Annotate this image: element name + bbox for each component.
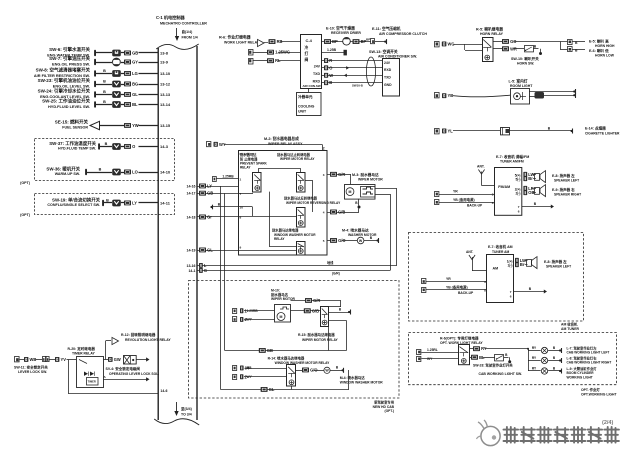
wire YR tuner xyxy=(435,189,495,196)
svg-text:B: B xyxy=(103,90,106,94)
svg-text:TIMER RELAY: TIMER RELAY xyxy=(72,351,96,355)
E-14 CIGARETTE LIGHTER xyxy=(501,125,621,135)
svg-text:RXD: RXD xyxy=(313,79,321,83)
wire relay out B xyxy=(329,308,351,315)
relay R-12 REVOLUTION LIGHT RELAY xyxy=(106,332,172,359)
E-11 AIR COMPRESSOR CLUTCH label xyxy=(372,26,427,36)
relay R-20 TIMER RELAY xyxy=(68,346,104,388)
svg-text:LO: LO xyxy=(132,170,138,175)
svg-text:WIPER MOTOR RELAY: WIPER MOTOR RELAY xyxy=(302,338,339,342)
room light return ticks xyxy=(573,89,575,98)
svg-text:HORN HIGH: HORN HIGH xyxy=(595,44,615,48)
svg-text:Gr: Gr xyxy=(207,215,212,220)
wire G/B cab xyxy=(291,308,321,313)
svg-text:M-2: 刮水器电器总成: M-2: 刮水器电器总成 xyxy=(264,136,299,141)
watermark rabbit logo xyxy=(477,420,501,446)
wiper relay assy box xyxy=(239,151,328,256)
wiper motor reversing relay xyxy=(284,195,341,227)
E-10 RECEIVER DRIER xyxy=(322,26,387,46)
lamp L-8 CAB WORKING LIGHT RIGHT xyxy=(528,355,611,364)
svg-text:CAB WORKING LIGHT RIGHT: CAB WORKING LIGHT RIGHT xyxy=(567,361,612,365)
svg-text:WIPER MOTOR: WIPER MOTOR xyxy=(358,178,383,182)
wire G/R to wiper motor xyxy=(323,172,351,185)
switch SW-10 HORN SW xyxy=(511,44,542,65)
svg-text:13-8: 13-8 xyxy=(160,51,169,56)
connector RB cab washer xyxy=(233,366,288,371)
svg-text:SW-10: 喇叭开关: SW-10: 喇叭开关 xyxy=(511,56,539,61)
svg-text:14-17: 14-17 xyxy=(187,191,196,195)
svg-text:GB: GB xyxy=(207,191,213,196)
connector WY wiper xyxy=(207,142,325,151)
svg-text:O: O xyxy=(329,65,332,70)
svg-text:14-3: 14-3 xyxy=(160,144,169,149)
svg-text:B: B xyxy=(103,79,106,83)
bus top break wave xyxy=(156,44,199,49)
svg-text:HORN RELAY: HORN RELAY xyxy=(480,32,504,36)
svg-text:14-19: 14-19 xyxy=(187,248,196,252)
switch SW-6 ENG WATER TEMP SW xyxy=(47,46,168,57)
svg-text:E-5: 喇叭 高: E-5: 喇叭 高 xyxy=(589,39,609,44)
antenna ANT xyxy=(477,164,495,185)
svg-text:4: 4 xyxy=(323,210,325,214)
svg-text:ANT.: ANT. xyxy=(466,250,473,254)
relay R-6 OPT box xyxy=(459,345,470,365)
svg-text:TUNER AM: TUNER AM xyxy=(492,250,510,254)
svg-text:9: 9 xyxy=(240,245,242,249)
speaker am wires xyxy=(507,258,528,268)
svg-text:14-16: 14-16 xyxy=(187,184,196,188)
svg-text:BP: BP xyxy=(332,39,338,44)
svg-text:7: 7 xyxy=(518,205,520,209)
svg-text:O: O xyxy=(132,144,135,149)
switch SW-28 CAB WORKING LIGHT SW xyxy=(473,353,522,376)
svg-text:R-6(OPT): 专用灯继电器: R-6(OPT): 专用灯继电器 xyxy=(440,335,479,340)
svg-text:YB (备用电源): YB (备用电源) xyxy=(453,197,475,202)
svg-text:AM: AM xyxy=(493,266,499,270)
svg-text:CAB WORKING LIGHT LEFT: CAB WORKING LIGHT LEFT xyxy=(567,351,610,355)
lamp L-9 BOOM CYLINDER WORKING LIGHT xyxy=(528,366,597,380)
svg-text:AM 收音机: AM 收音机 xyxy=(561,322,578,327)
connector 1.25RL xyxy=(417,348,459,354)
svg-text:ROOM LIGHT: ROOM LIGHT xyxy=(510,84,533,88)
wiper relay assy M-2 label xyxy=(264,136,303,146)
svg-text:E-7: 收音机 调幅/FM: E-7: 收音机 调幅/FM xyxy=(496,154,529,159)
wire GB pin 14-17 xyxy=(187,191,242,196)
ground wire L 13-16 xyxy=(187,260,398,268)
svg-text:GL: GL xyxy=(132,92,138,97)
svg-text:LY: LY xyxy=(132,201,137,206)
switch SW-7 ENG OIL PRESS SW xyxy=(49,55,169,66)
switch SW-37 HYD FLUID TEMP SW xyxy=(49,140,168,151)
branch wire LY down xyxy=(220,186,222,390)
solenoid SV-4 OPERATING LEVER LOCK SOL xyxy=(106,356,160,376)
assy internal wires xyxy=(238,168,313,250)
svg-text:新驾驶室专用: 新驾驶室专用 xyxy=(374,399,394,404)
svg-text:B: B xyxy=(329,80,332,85)
switch room light xyxy=(529,92,575,99)
svg-text:13-9: 13-9 xyxy=(160,60,169,65)
sensor SE-15 FUEL SENSOR xyxy=(55,119,171,130)
svg-text:13-13: 13-13 xyxy=(160,92,171,97)
svg-text:SW-8: 空气滤清器堵塞开关: SW-8: 空气滤清器堵塞开关 xyxy=(36,67,91,74)
wire R 24V xyxy=(322,58,382,63)
wire motor return lower xyxy=(376,194,391,271)
svg-text:L-8: 驾驶室作业灯右: L-8: 驾驶室作业灯右 xyxy=(567,355,598,360)
bus left vertical wire xyxy=(157,48,159,420)
svg-text:TUNER AM/FM: TUNER AM/FM xyxy=(500,160,524,164)
svg-text:E-9: 扬声器 右: E-9: 扬声器 右 xyxy=(552,187,575,192)
svg-text:G/R: G/R xyxy=(313,298,320,303)
svg-text:LY: LY xyxy=(207,184,212,189)
svg-text:E-14: 点烟器: E-14: 点烟器 xyxy=(585,125,606,130)
switch SW-25 HYD FLUID LEVEL SW xyxy=(42,98,171,109)
svg-text:14-1: 14-1 xyxy=(188,269,195,273)
svg-text:10: 10 xyxy=(240,206,244,210)
svg-text:(OPT): (OPT) xyxy=(20,181,31,185)
arrow TO 3/4 xyxy=(174,402,191,417)
svg-text:刮水器马达止转继电器: 刮水器马达止转继电器 xyxy=(277,152,311,157)
svg-text:BACK-UP: BACK-UP xyxy=(467,203,483,207)
svg-text:8: 8 xyxy=(240,216,242,220)
svg-text:1.25B: 1.25B xyxy=(327,48,337,52)
svg-text:SPEAKER LEFT: SPEAKER LEFT xyxy=(546,264,571,268)
wire B pin 10 xyxy=(210,202,243,209)
connector 1.25WG xyxy=(249,50,302,56)
bus bottom break wave xyxy=(154,419,199,425)
svg-text:OPT.WORKING LIGHT: OPT.WORKING LIGHT xyxy=(581,392,617,396)
svg-text:6: 6 xyxy=(510,295,512,299)
harness ellipse xyxy=(366,57,375,86)
wire GL pin 14-19 xyxy=(187,245,242,252)
svg-text:8: 8 xyxy=(484,288,486,292)
svg-text:2(-): 2(-) xyxy=(516,192,521,196)
svg-text:WIPER RELAY ASSY: WIPER RELAY ASSY xyxy=(268,142,303,146)
svg-text:ANT.: ANT. xyxy=(477,164,485,168)
svg-text:24V: 24V xyxy=(314,64,321,68)
svg-text:B: B xyxy=(105,142,108,146)
svg-text:HORN SW.: HORN SW. xyxy=(517,61,534,65)
svg-text:GND: GND xyxy=(384,83,392,87)
dashed box NEW HD CAB OPT xyxy=(189,281,400,414)
svg-text:WG: WG xyxy=(448,42,455,47)
svg-text:CAB WORKING LIGHT SW.: CAB WORKING LIGHT SW. xyxy=(479,372,523,376)
svg-text:G: G xyxy=(204,268,207,273)
svg-text:L-7: 驾驶室作业灯左: L-7: 驾驶室作业灯左 xyxy=(567,345,598,350)
svg-text:E-11: 空气压缩机: E-11: 空气压缩机 xyxy=(372,26,401,31)
wire O RXD xyxy=(322,65,382,70)
svg-text:FM/AM: FM/AM xyxy=(498,185,510,189)
junction wire down xyxy=(527,348,529,371)
svg-text:5(-): 5(-) xyxy=(516,178,521,182)
motor M-10 WIPER MOTOR xyxy=(271,289,296,322)
am tuner ground wire B xyxy=(510,287,547,299)
svg-text:13-12: 13-12 xyxy=(160,82,171,87)
svg-text:(OPT.): (OPT.) xyxy=(384,409,394,413)
svg-text:M-4: 喷水器马达: M-4: 喷水器马达 xyxy=(340,375,366,380)
wire GO to horn high xyxy=(493,39,568,44)
svg-text:COOLING: COOLING xyxy=(298,105,315,109)
svg-text:WINDOW WASHER MOTOR RELAY: WINDOW WASHER MOTOR RELAY xyxy=(275,361,331,365)
svg-text:AM TUNER: AM TUNER xyxy=(561,327,580,331)
dashed box AM TUNER xyxy=(409,233,584,332)
svg-text:GY: GY xyxy=(132,60,138,65)
svg-text:M-3: 刮水器马达: M-3: 刮水器马达 xyxy=(352,172,379,177)
svg-text:24V: 24V xyxy=(384,61,391,65)
svg-text:SW-7: 引擎油压开关: SW-7: 引擎油压开关 xyxy=(49,55,90,62)
svg-text:TO 3/4: TO 3/4 xyxy=(181,413,192,417)
svg-text:AIR CON.SW: AIR CON.SW xyxy=(303,84,321,88)
branch wire GB down xyxy=(224,193,226,350)
wire G/R cab xyxy=(291,298,342,307)
svg-text:C-4: C-4 xyxy=(306,38,313,43)
svg-text:地线: 地线 xyxy=(327,260,334,265)
wire relay to GB row xyxy=(329,321,347,351)
svg-text:13-15: 13-15 xyxy=(160,123,171,128)
svg-text:ENG.OIL PRESS SW.: ENG.OIL PRESS SW. xyxy=(52,62,90,66)
svg-text:3: 3 xyxy=(492,193,494,197)
dashed box OPT WORKING LIGHT xyxy=(409,333,618,397)
svg-text:G/O: G/O xyxy=(310,368,317,373)
svg-text:E-10: 空气干燥器: E-10: 空气干燥器 xyxy=(326,26,355,31)
svg-text:R-15: 刮水器马达继电器: R-15: 刮水器马达继电器 xyxy=(298,332,335,337)
svg-text:14-18: 14-18 xyxy=(187,215,196,219)
svg-text:7: 7 xyxy=(510,290,512,294)
svg-text:GB: GB xyxy=(132,51,138,56)
wire YB back-up tuner xyxy=(435,197,495,207)
svg-text:RELAY: RELAY xyxy=(240,166,251,170)
speaker right wires xyxy=(515,186,536,196)
connector RL xyxy=(249,58,302,64)
svg-text:E-8: 扬声器 左: E-8: 扬声器 左 xyxy=(552,173,575,178)
svg-text:YB (备用电源): YB (备用电源) xyxy=(446,285,468,290)
switch SW-24 ENG COOLANT LEVEL SW xyxy=(38,88,171,99)
svg-text:BG: BG xyxy=(132,82,138,87)
speaker E-8 am SPEAKER LEFT xyxy=(527,257,572,269)
svg-text:GL: GL xyxy=(269,387,275,392)
svg-text:LG: LG xyxy=(132,71,138,76)
svg-text:冷: 冷 xyxy=(305,45,309,50)
COOLING UNIT box xyxy=(297,88,322,116)
svg-text:HORN LOW: HORN LOW xyxy=(595,54,615,58)
bus right vertical wire xyxy=(196,46,198,420)
relay R-5 HORN RELAY xyxy=(465,27,504,62)
wire 1.25B xyxy=(322,48,347,55)
svg-text:R-5: 喇叭继电器: R-5: 喇叭继电器 xyxy=(476,27,503,32)
svg-text:至(3/4): 至(3/4) xyxy=(181,406,192,411)
connector WY cab wiper xyxy=(233,317,275,323)
svg-text:M: M xyxy=(280,315,283,319)
SW-11 LEVER LOCK SW label xyxy=(14,364,48,374)
svg-text:自(1/4): 自(1/4) xyxy=(182,29,193,34)
switch SW-23 ENG OIL LEVEL SW xyxy=(38,77,171,88)
svg-text:R-20: 定时继电器: R-20: 定时继电器 xyxy=(68,346,96,351)
wire Gr pin 14-18 xyxy=(187,215,242,220)
svg-text:L-9: 大臂油缸作业灯: L-9: 大臂油缸作业灯 xyxy=(567,366,598,371)
svg-text:L-5: 室内灯: L-5: 室内灯 xyxy=(509,78,528,83)
svg-text:14-11: 14-11 xyxy=(160,201,171,206)
svg-text:(2/4): (2/4) xyxy=(602,420,613,426)
lamp L-7 CAB WORKING LIGHT LEFT xyxy=(528,345,609,354)
svg-text:M: M xyxy=(349,190,352,194)
svg-text:GW: GW xyxy=(114,357,121,362)
svg-text:SE-15: 燃料开关: SE-15: 燃料开关 xyxy=(55,119,89,126)
svg-text:E-6: 喇叭 低: E-6: 喇叭 低 xyxy=(589,48,609,53)
svg-text:G/B: G/B xyxy=(338,210,345,215)
svg-text:SW-24: 引擎冷却水位开关: SW-24: 引擎冷却水位开关 xyxy=(38,88,91,95)
svg-text:YR: YR xyxy=(453,189,458,193)
connector YB room light xyxy=(435,93,511,99)
svg-text:阀: 阀 xyxy=(305,57,309,62)
svg-text:LEVER LOCK SW.: LEVER LOCK SW. xyxy=(18,370,47,374)
switch SW-8 AIR FILTER RESTRICTION SW xyxy=(34,67,171,78)
relay R-6 WORK LIGHT RELAY triangle xyxy=(219,35,268,47)
svg-text:SPEAKER LEFT: SPEAKER LEFT xyxy=(554,178,579,182)
svg-text:(G/R): (G/R) xyxy=(332,272,340,276)
svg-text:打: 打 xyxy=(305,51,309,56)
svg-text:M-4: 喷水器马达: M-4: 喷水器马达 xyxy=(342,227,369,232)
wire 14-6 to bus xyxy=(68,360,167,394)
svg-text:SPEAKER RIGHT: SPEAKER RIGHT xyxy=(554,192,581,196)
svg-text:HYD.FLUID LEVEL SW.: HYD.FLUID LEVEL SW. xyxy=(48,105,90,109)
svg-text:SW-11: 安全锁定开关: SW-11: 安全锁定开关 xyxy=(14,364,48,369)
svg-text:WASHER MOTOR: WASHER MOTOR xyxy=(348,233,377,237)
switch SW-36 WARM-UP SW xyxy=(46,165,170,176)
svg-text:OPERATING LEVER LOCK SOL.: OPERATING LEVER LOCK SOL. xyxy=(109,372,159,376)
antenna ANT am xyxy=(466,250,487,271)
svg-text:YR: YR xyxy=(446,277,451,281)
svg-text:13-10: 13-10 xyxy=(160,71,171,76)
svg-text:FUEL SENSOR: FUEL SENSOR xyxy=(62,126,88,130)
svg-text:SW-23: 引擎机油油位开关: SW-23: 引擎机油油位开关 xyxy=(38,77,91,84)
svg-text:R: R xyxy=(329,58,332,63)
wire LY pin 14-16 xyxy=(187,184,239,189)
svg-text:REVOLUTION LIGHT RELAY: REVOLUTION LIGHT RELAY xyxy=(125,338,171,342)
svg-text:1: 1 xyxy=(240,178,242,182)
relay R-14 WINDOW WASHER MOTOR RELAY label xyxy=(268,356,331,366)
dashed option box 2 xyxy=(20,194,174,218)
watermark text xyxy=(504,427,619,443)
relay R-15 WIPER MOTOR RELAY xyxy=(298,307,339,342)
svg-text:SW10-B: SW10-B xyxy=(352,84,363,88)
speaker E-9 SPEAKER RIGHT xyxy=(535,185,582,197)
svg-text:SW-13: 空调开关: SW-13: 空调开关 xyxy=(369,49,398,54)
connector YL cigarette xyxy=(435,129,501,134)
svg-text:WY: WY xyxy=(247,375,253,379)
svg-text:RECEIVER DRIER: RECEIVER DRIER xyxy=(331,31,361,35)
svg-text:SV-4: 安全锁定电磁阀: SV-4: 安全锁定电磁阀 xyxy=(106,366,141,371)
svg-text:8: 8 xyxy=(492,201,494,205)
svg-text:YB: YB xyxy=(448,93,454,98)
svg-text:3: 3 xyxy=(323,173,325,177)
wire motor return upper xyxy=(376,189,398,266)
wire G/B reversing out xyxy=(323,209,359,215)
svg-text:冷器单元: 冷器单元 xyxy=(298,94,313,99)
svg-text:刮水器马达: 刮水器马达 xyxy=(271,292,289,297)
svg-text:SW-25: 工作油油位开关: SW-25: 工作油油位开关 xyxy=(42,98,90,105)
svg-text:BP: BP xyxy=(366,38,370,42)
svg-text:GB: GB xyxy=(267,348,273,353)
svg-text:B: B xyxy=(106,198,109,202)
svg-text:14-10: 14-10 xyxy=(160,170,171,175)
svg-text:R-6: 作业灯继电器: R-6: 作业灯继电器 xyxy=(219,35,251,40)
svg-text:GL: GL xyxy=(207,248,213,253)
svg-text:WIPER MOTOR RELAY: WIPER MOTOR RELAY xyxy=(280,157,315,161)
wire GB return xyxy=(225,348,347,353)
svg-text:E-8: 扬声器 左: E-8: 扬声器 左 xyxy=(544,259,567,264)
tuner ground wire B xyxy=(518,202,554,214)
svg-text:SW-6: 引擎水温开关: SW-6: 引擎水温开关 xyxy=(49,46,90,53)
switch SW-19 CONFLU/SINGLE SELECT SW xyxy=(47,196,170,207)
wire timer lower out xyxy=(103,375,150,381)
connector WG from fuse xyxy=(435,42,483,47)
wire RY out xyxy=(469,346,528,351)
svg-text:CONFLU/SINGLE SELECT SW.: CONFLU/SINGLE SELECT SW. xyxy=(47,203,100,207)
speaker left wires xyxy=(515,172,536,182)
SW-13 AIR CONDITIONER SW label xyxy=(369,49,417,59)
ground wire G 14-1 xyxy=(188,268,390,276)
arrow FROM 1/4 xyxy=(175,28,198,41)
prevent spark relay xyxy=(240,152,268,192)
connector WY opt xyxy=(417,357,459,362)
svg-text:WORK LIGHT RELAY: WORK LIGHT RELAY xyxy=(224,41,260,45)
wire WR to horn switch xyxy=(493,46,525,51)
svg-text:R-14: 喷水器马达继电器: R-14: 喷水器马达继电器 xyxy=(268,356,305,361)
svg-text:WINDOW WASHER MOTOR: WINDOW WASHER MOTOR xyxy=(340,381,384,385)
svg-text:WORKING LIGHT: WORKING LIGHT xyxy=(567,376,593,380)
wire YR am xyxy=(422,277,488,284)
svg-text:YW: YW xyxy=(132,123,139,128)
svg-text:TIMER: TIMER xyxy=(88,380,96,384)
mechatro controller C-1 label xyxy=(156,14,207,26)
svg-text:G/B: G/B xyxy=(312,308,319,313)
svg-text:RELAY: RELAY xyxy=(274,237,285,241)
svg-text:14-6: 14-6 xyxy=(160,389,167,393)
svg-text:YL: YL xyxy=(448,129,454,134)
connector pair lever lock xyxy=(43,357,77,363)
page number 2/4 xyxy=(602,420,613,426)
connector B horn low xyxy=(560,42,585,53)
motor M-3 WIPER MOTOR xyxy=(345,172,384,199)
svg-text:TXD: TXD xyxy=(384,76,391,80)
svg-text:Br: Br xyxy=(528,176,533,181)
connector B horn high xyxy=(568,40,586,46)
tuner AM box xyxy=(487,255,514,303)
svg-text:R-12: 回转照明继电器: R-12: 回转照明继电器 xyxy=(121,332,156,337)
wire W TXD xyxy=(322,73,382,78)
svg-text:C-1 机电控制器: C-1 机电控制器 xyxy=(156,14,185,20)
svg-text:HYD.FLUID TEMP SW.: HYD.FLUID TEMP SW. xyxy=(58,147,96,151)
svg-text:YV: YV xyxy=(61,357,67,362)
connector C-4 mechatro xyxy=(301,35,322,89)
E-5 HORN HIGH label xyxy=(589,39,615,49)
svg-text:1.25RB: 1.25RB xyxy=(247,309,259,313)
svg-text:CIGARETTE LIGHTER: CIGARETTE LIGHTER xyxy=(585,131,620,135)
tuner E-7 AM labels xyxy=(488,244,513,254)
svg-text:FROM 1/4: FROM 1/4 xyxy=(182,36,198,40)
svg-text:7: 7 xyxy=(240,192,242,196)
relay R-6 OPT WORK LIGHT RELAY label xyxy=(440,335,483,345)
svg-text:MECHATRO CONTROLLER: MECHATRO CONTROLLER xyxy=(160,22,207,26)
connector WY cab washer xyxy=(233,374,288,379)
connector SW-11 lever lock xyxy=(15,357,43,363)
svg-text:13-16: 13-16 xyxy=(187,264,196,268)
tuner E-7 AM/FM labels xyxy=(496,154,529,164)
dashed option box 1 xyxy=(20,139,174,186)
svg-text:B: B xyxy=(103,69,106,73)
svg-text:TXD: TXD xyxy=(313,72,320,76)
speaker E-8 SPEAKER LEFT xyxy=(535,171,580,183)
svg-text:Br: Br xyxy=(520,262,525,267)
